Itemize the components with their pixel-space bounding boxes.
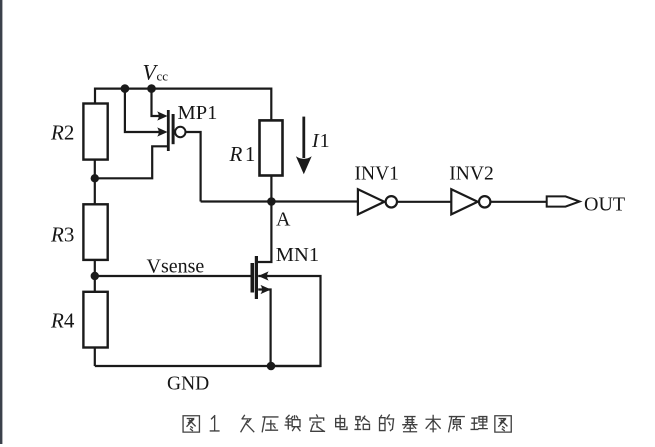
svg-text:A: A [276, 208, 291, 230]
svg-text:R4: R4 [50, 309, 75, 333]
label Vcc [143, 59, 169, 84]
caption char suo3 [285, 415, 300, 430]
transistor MP1 gate bubble [175, 127, 185, 137]
transistor MP1 channel bar [167, 110, 170, 151]
svg-text:GND: GND [167, 374, 209, 395]
svg-text:INV1: INV1 [355, 164, 399, 185]
wire R1 bottom lead [270, 176, 272, 202]
label MN1 [276, 244, 319, 266]
caption char ji1 [403, 417, 417, 432]
resistor R3 [83, 204, 107, 260]
label R4 [50, 309, 75, 333]
transistor MN1 channel bar [255, 256, 258, 299]
wire MP1 gate to node A [186, 132, 201, 202]
resistor R4 [83, 292, 107, 348]
wire MN1 body loop [258, 276, 320, 366]
wire INV1 to INV2 [397, 201, 451, 203]
label R2 [50, 121, 74, 145]
label MP1 [178, 102, 218, 124]
svg-text:R1: R1 [229, 142, 256, 166]
caption char tu2 (2nd) [495, 416, 511, 432]
caption char li3 [471, 417, 487, 430]
inverter INV1 triangle [358, 189, 384, 214]
node Vsense junction dot [91, 272, 99, 280]
caption char de5 [380, 415, 394, 431]
label I1 [311, 130, 330, 152]
wire R1 top lead [270, 88, 272, 121]
wire node A rail [201, 200, 358, 202]
wire R2 top lead [94, 88, 96, 104]
label R1 [229, 142, 256, 166]
caption char lu4 [355, 416, 369, 429]
caption char tu2 (1st) [183, 416, 199, 432]
caption char ya1 [262, 417, 278, 432]
svg-text:MN1: MN1 [276, 244, 319, 266]
transistor MN1 gate bar [251, 263, 255, 293]
current arrow I1 [302, 117, 305, 158]
svg-text:MP1: MP1 [178, 102, 218, 124]
node Vcc junction dot right [147, 84, 156, 93]
caption digit 1 [210, 416, 219, 431]
label A [276, 208, 291, 230]
node Vcc junction dot left [121, 84, 130, 93]
label Vsense [147, 256, 205, 278]
caption char dian4 [336, 415, 347, 429]
caption char ben3 [426, 415, 440, 431]
wire MP1 source drop [152, 89, 160, 116]
wire MN1 source [258, 290, 270, 367]
label INV2 [449, 164, 493, 185]
caption char ding4 [310, 415, 324, 431]
node GND junction dot [267, 362, 276, 371]
MP1 body arrowhead [157, 127, 167, 136]
caption: 图 1 欠压锁定电路的基本原理图 [183, 415, 511, 432]
page left border [0, 0, 2, 444]
svg-text:I1: I1 [311, 130, 330, 152]
label R3 [50, 223, 74, 247]
inverter INV1 bubble [386, 196, 397, 207]
MP1 source arrowhead [157, 111, 167, 120]
svg-text:Vsense: Vsense [147, 256, 205, 278]
wire Vcc rail [95, 87, 271, 89]
svg-text:INV2: INV2 [449, 164, 493, 185]
wire MN1 drain from node A [256, 202, 271, 263]
wire Vsense to MN1 gate [95, 275, 251, 277]
MN1 source arrowhead [261, 285, 271, 294]
caption char yuan2 [449, 417, 465, 432]
svg-text:R2: R2 [50, 121, 74, 145]
OUT port symbol [547, 196, 580, 206]
wire R2 to R3 [94, 160, 96, 205]
wire MP1 body drop [125, 89, 159, 132]
wire MP1 drain to R2/R3 node [95, 146, 168, 178]
label INV1 [355, 164, 399, 185]
resistor R2 [83, 104, 107, 160]
caption char qian4 [241, 415, 254, 431]
svg-text:OUT: OUT [584, 193, 625, 215]
transistor MP1 gate bar [172, 114, 175, 144]
node R2-R3 junction dot [91, 174, 99, 182]
svg-text:cc: cc [157, 69, 169, 84]
wire INV2 to OUT port [490, 201, 546, 203]
MN1 body arrowhead [258, 271, 268, 280]
inverter INV2 triangle [451, 189, 477, 214]
inverter INV2 bubble [479, 196, 490, 207]
resistor R1 [260, 120, 283, 175]
wire GND rail [95, 365, 321, 367]
label GND [167, 374, 209, 395]
svg-text:R3: R3 [50, 223, 74, 247]
wire R4 bottom lead [94, 348, 96, 367]
label OUT [584, 193, 625, 215]
node A junction dot [267, 197, 276, 206]
wire R3 to R4 [94, 260, 96, 292]
